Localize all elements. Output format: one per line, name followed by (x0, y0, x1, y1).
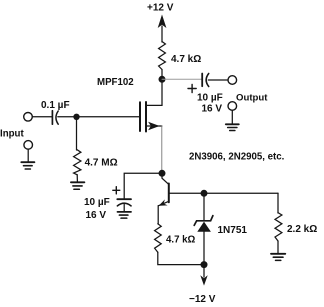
transistor Q1 collector lead (162, 175, 169, 184)
capacitor C2 curved plate (206, 74, 209, 87)
wire (32, 116, 51, 118)
polarity + for C2 (188, 84, 196, 92)
ground C3 (118, 211, 132, 213)
svg-text:4.7 kΩ: 4.7 kΩ (166, 234, 196, 245)
transistor U1 MPF102 JFET gate bar (139, 102, 141, 131)
wire source lead (147, 125, 162, 127)
wire drain lead (147, 104, 162, 106)
svg-text:Input: Input (0, 129, 24, 140)
svg-text:16 V: 16 V (202, 103, 223, 114)
resistor R4 2.2k (275, 213, 282, 241)
capacitor C3 curved plate (117, 203, 131, 206)
wire (27, 149, 29, 161)
polarity + for C3 (113, 187, 120, 194)
power arrow -12V (203, 267, 205, 277)
node base junction (201, 190, 208, 197)
arrow source of U1 (148, 122, 160, 130)
power arrow +12V (158, 15, 167, 29)
wire (203, 232, 205, 265)
terminal Output (228, 76, 237, 85)
wire (208, 79, 228, 81)
wire (123, 204, 125, 211)
wire (157, 206, 159, 224)
wire (76, 175, 78, 182)
node negative rail junction (201, 261, 208, 268)
wire (231, 110, 233, 123)
diode D1 cathode bar with zener ticks (194, 216, 213, 226)
ground R2 (71, 181, 85, 183)
wire base (170, 192, 278, 194)
terminal output ground reference (228, 102, 237, 111)
wire (158, 252, 204, 264)
svg-text:Output: Output (236, 93, 268, 104)
svg-text:2.2 kΩ: 2.2 kΩ (287, 224, 317, 235)
resistor R2 4.7M gate bias (74, 150, 81, 175)
wire (161, 70, 163, 106)
wire (76, 119, 78, 150)
diode D1 anode triangle (197, 222, 211, 232)
svg-text:MPF102: MPF102 (97, 77, 134, 88)
diode D1 1N751 zener lead (203, 197, 205, 221)
wire (124, 173, 162, 198)
svg-text:4.7 kΩ: 4.7 kΩ (171, 54, 201, 65)
svg-text:+12 V: +12 V (147, 3, 174, 14)
terminal Input (24, 113, 33, 122)
svg-text:0.1 µF: 0.1 µF (41, 100, 70, 111)
wire (161, 126, 163, 173)
ground output (226, 123, 239, 125)
transistor Q1 base bar (168, 184, 170, 203)
svg-text:−12 V: −12 V (189, 294, 216, 305)
svg-text:10 µF: 10 µF (197, 92, 223, 103)
resistor R3 4.7k emitter (155, 224, 162, 253)
capacitor C1 0.1uF plate (51, 111, 53, 125)
transistor Q1 emitter lead (159, 201, 169, 205)
node gate junction (73, 114, 79, 120)
node drain junction (159, 76, 166, 83)
svg-text:2N3906, 2N2905, etc.: 2N3906, 2N2905, etc. (189, 152, 285, 163)
wire gate (58, 116, 139, 118)
svg-text:10 µF: 10 µF (84, 197, 110, 208)
resistor R1 4.7k drain load (159, 42, 166, 70)
node source junction (159, 170, 166, 177)
wire (162, 78, 202, 80)
terminal input ground reference (24, 141, 33, 150)
ground input (21, 161, 34, 163)
svg-text:1N751: 1N751 (218, 225, 248, 236)
svg-text:16 V: 16 V (86, 210, 107, 221)
svg-text:4.7 MΩ: 4.7 MΩ (85, 157, 118, 168)
wire (161, 26, 163, 42)
wire (277, 193, 279, 213)
wire (277, 241, 279, 253)
transistor U1 channel bar (145, 102, 147, 132)
capacitor C1 curved plate (56, 111, 58, 124)
ground R4 (271, 253, 285, 255)
capacitor C3 10uF source bypass plate (117, 198, 131, 200)
capacitor C2 10uF output plate + (201, 74, 203, 87)
arrow emitter of Q1 (159, 199, 168, 205)
